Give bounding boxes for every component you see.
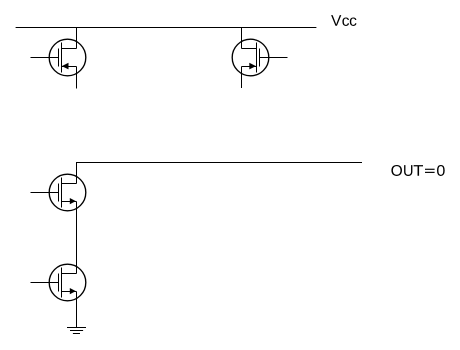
wire Q3 source to Q4 drain	[76, 202, 78, 274]
wire Q1 source to Vcc rail	[76, 28, 78, 49]
node Vcc label	[331, 15, 356, 26]
wire Vcc rail	[16, 27, 317, 29]
transistor Q2 (PMOS pull-up, right, mirrored)	[232, 39, 269, 76]
wire Q2 source to Vcc rail	[241, 28, 243, 49]
ground	[67, 328, 86, 334]
wire Q2 drain stub	[241, 67, 243, 89]
wire Q4 gate lead	[31, 282, 59, 284]
wire Q2 gate lead	[260, 57, 288, 59]
transistor Q4 (NMOS pull-down, lower)	[49, 264, 86, 301]
transistor Q3 (NMOS pull-down, upper)	[49, 174, 86, 211]
wire Q4 source to ground	[76, 292, 78, 328]
node OUT=0 label	[391, 165, 444, 176]
wire Q1 gate lead	[31, 57, 59, 59]
transistor Q1 (PMOS pull-up, left)	[49, 39, 86, 76]
wire Q1 drain stub	[76, 67, 78, 89]
wire OUT node	[77, 163, 363, 184]
wire Q3 gate lead	[31, 192, 59, 194]
